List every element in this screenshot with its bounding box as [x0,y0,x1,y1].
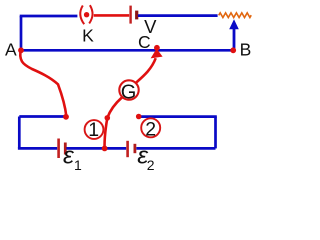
terminal label circled 2 [141,118,160,137]
galvanometer G [119,80,138,99]
wire: top horizontal to key [20,15,78,18]
svg-text:2: 2 [145,119,156,141]
svg-text:C: C [138,32,151,52]
svg-text:A: A [5,40,17,60]
key K right arc [89,5,92,23]
wire: loop2 right vertical [214,117,217,149]
terminal dot 1 [105,115,111,121]
wire: potentiometer wire A to B [21,49,233,52]
key K contact dot [84,12,89,17]
cell E2 long plate [126,141,129,157]
cell V short plate [135,11,138,20]
wire: bottom between cells [66,147,126,150]
node A [18,47,24,53]
wire: loop1 top stub [19,115,66,118]
cell E1 short plate [64,143,67,155]
node B [230,47,236,53]
key K left arc [80,6,84,25]
cell V long plate [129,6,131,24]
svg-text:1: 1 [88,119,99,141]
terminal dot 2 [136,114,142,120]
wire: loop1 left vertical [18,117,21,149]
node C [154,45,160,51]
wire: bottom to right vertical [136,147,215,150]
wire: loop2 top [141,115,217,118]
svg-text:G: G [121,81,137,103]
flexible wire from A to loop1 stub [20,50,66,116]
wire: blue from cell to rheostat [138,14,218,17]
svg-text:1: 1 [74,157,82,173]
rheostat zigzag wire [219,13,252,18]
wire: left vertical A riser [20,16,23,50]
terminal dot at loop1 stub end [63,114,69,120]
wire galvanometer to C with arrow [136,58,156,83]
cell E2 short plate [133,144,136,153]
wire: red from key to cell [94,14,129,17]
terminal label circled 1 [85,120,104,139]
cell E1 long plate [57,139,60,159]
svg-text:2: 2 [147,157,155,173]
flexible wire junction to terminal 1 [105,118,108,148]
junction dot between cells [102,146,108,152]
svg-text:K: K [82,25,94,45]
wire: loop1 bottom to cell1 [18,147,57,150]
rheostat slider arrow [233,27,236,51]
svg-text:B: B [240,40,252,60]
wire terminal 1 to galvanometer [107,97,122,118]
